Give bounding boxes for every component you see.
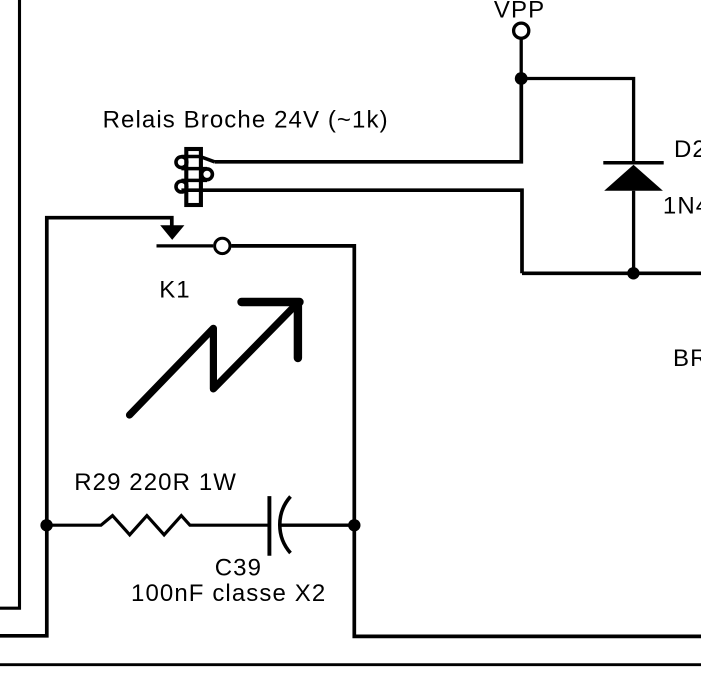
- node diode bottom junction: [627, 267, 639, 279]
- relay winding crossover mid1: [181, 167, 207, 171]
- svg-text:BR1: BR1: [673, 345, 701, 372]
- wire bottom rail to right edge: [522, 271, 701, 275]
- wire VPP terminal to junction: [520, 39, 523, 79]
- node junction right: [348, 519, 360, 531]
- svg-text:1N4007: 1N4007: [663, 193, 701, 220]
- svg-text:K1: K1: [159, 277, 191, 304]
- svg-text:R29 220R 1W: R29 220R 1W: [74, 469, 237, 496]
- diode D2 cathode bar: [603, 161, 663, 165]
- relay coil loop top-left: [176, 157, 187, 168]
- svg-text:100nF classe X2: 100nF classe X2: [131, 580, 326, 607]
- VPP terminal circle: [514, 23, 529, 38]
- switch contact circle K1: [215, 238, 230, 253]
- wire relay coil pin 1 to VPP junction: [215, 79, 522, 162]
- capacitor C39 plate left: [267, 496, 271, 556]
- switch actuation arrowhead: [160, 225, 184, 240]
- svg-text:C39: C39: [215, 555, 262, 582]
- node VPP junction: [515, 72, 528, 85]
- bottom sheet border line: [0, 663, 701, 666]
- relay coil loop mid-right: [202, 169, 213, 180]
- node junction left: [40, 519, 52, 531]
- wire switch output to bottom right: [231, 246, 701, 637]
- wire diode anode to bottom junction: [632, 191, 635, 273]
- wire relay coil pin 2 down to bottom rail: [181, 190, 522, 273]
- K1 actuator arrow head bar horizontal: [242, 298, 300, 306]
- wire switch blade: [157, 244, 214, 247]
- K1 actuator arrow head bar vertical: [294, 303, 302, 359]
- wire switch drive loop (left): [0, 218, 172, 636]
- capacitor C39 plate right (curved): [280, 497, 291, 554]
- resistor R29: [46, 516, 268, 535]
- svg-text:Relais Broche 24V (~1k): Relais Broche 24V (~1k): [103, 107, 389, 134]
- svg-text:VPP: VPP: [494, 0, 545, 23]
- wire VPP junction to diode cathode: [521, 79, 633, 163]
- relay winding crossover mid2: [181, 179, 207, 183]
- svg-text:D2: D2: [674, 136, 701, 163]
- diode D2 triangle: [604, 165, 663, 191]
- K1 actuator arrow shaft: [130, 302, 299, 415]
- relay winding crossover top: [181, 157, 214, 162]
- relay coil loop bottom-left: [176, 181, 187, 192]
- relay coil core: [186, 149, 201, 205]
- wire capacitor to right node: [281, 524, 354, 527]
- wire left bus (cropped, exits left): [0, 0, 20, 608]
